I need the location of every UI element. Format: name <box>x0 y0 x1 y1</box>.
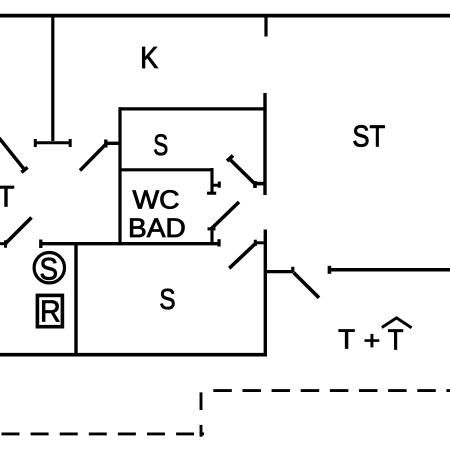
wall K left <box>51 17 54 141</box>
svg-text:K: K <box>140 42 158 76</box>
svg-text:BAD: BAD <box>128 212 186 242</box>
wall top exterior <box>0 14 450 18</box>
wall S top <box>119 107 267 110</box>
door threshold K <box>35 139 71 147</box>
wall bottom exterior <box>0 353 267 357</box>
wall stub left edge <box>0 240 7 247</box>
door leaf E (BAD) <box>211 202 239 229</box>
door leaf D (ST upper) <box>227 156 264 189</box>
wall BAD corner tick <box>208 229 216 243</box>
door leaf A (left room) <box>0 138 28 173</box>
wall right long <box>329 266 450 274</box>
wall S left <box>118 107 121 245</box>
door tick ST lower <box>255 240 264 246</box>
svg-text:T: T <box>388 323 404 356</box>
dashed boundary vertical <box>200 392 203 410</box>
door tick WC <box>212 182 219 188</box>
wall WC right upper <box>207 168 216 193</box>
svg-text:ST: ST <box>352 118 385 153</box>
svg-text:S: S <box>159 283 175 316</box>
dashed boundary corner piece <box>200 425 201 435</box>
wall ST left upper <box>263 93 266 195</box>
wall S2 left <box>74 244 77 356</box>
wall tick K/ST divider <box>264 17 267 37</box>
svg-text:WC: WC <box>133 184 180 214</box>
svg-text:T: T <box>338 324 355 355</box>
dashed boundary upper <box>213 389 450 392</box>
symbol square R <box>37 295 62 326</box>
wall WC divider <box>119 168 214 171</box>
svg-text:R: R <box>40 294 61 328</box>
dashed boundary lower <box>2 432 195 435</box>
door leaf G (T room) <box>294 273 320 298</box>
door leaf B (hall to K) <box>80 140 119 171</box>
wall ST left lower <box>264 230 267 357</box>
svg-text:+: + <box>364 326 381 355</box>
svg-text:T: T <box>0 181 15 214</box>
symbol hat over T <box>382 318 412 328</box>
symbol circle S <box>34 253 64 283</box>
door leaf C (lower left) <box>6 218 32 244</box>
door leaf F (ST lower) <box>229 243 256 268</box>
svg-text:S: S <box>40 252 58 287</box>
svg-text:S: S <box>153 128 168 162</box>
wall branch T room <box>265 267 293 272</box>
wall hall bottom long <box>41 239 220 248</box>
